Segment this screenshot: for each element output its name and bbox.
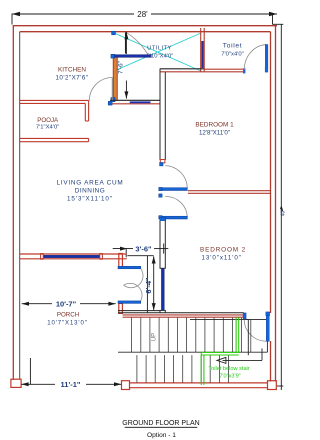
svg-text:11'-1": 11'-1" <box>61 380 81 389</box>
svg-text:Option - 1: Option - 1 <box>147 432 176 439</box>
svg-text:KITCHEN: KITCHEN <box>58 67 86 74</box>
svg-text:10'7"X13'0": 10'7"X13'0" <box>47 321 87 327</box>
svg-text:7'0"x3'9": 7'0"x3'9" <box>219 374 240 380</box>
svg-text:UP: UP <box>152 333 158 341</box>
svg-text:15'3"X11'10": 15'3"X11'10" <box>67 196 113 203</box>
svg-text:6'-4": 6'-4" <box>144 277 153 294</box>
svg-text:10'-7": 10'-7" <box>56 300 77 309</box>
svg-text:28': 28' <box>137 10 148 19</box>
svg-text:10'2"X7'6": 10'2"X7'6" <box>55 75 88 82</box>
svg-text:7'0"x4'0": 7'0"x4'0" <box>221 51 243 57</box>
svg-text:LIVING AREA CUM: LIVING AREA CUM <box>56 180 123 187</box>
svg-text:BEDROOM 1: BEDROOM 1 <box>195 122 234 129</box>
svg-text:7'1"X4'0": 7'1"X4'0" <box>36 125 59 131</box>
svg-text:7'-6": 7'-6" <box>118 60 125 74</box>
svg-text:GROUND FLOOR PLAN: GROUND FLOOR PLAN <box>122 420 199 427</box>
svg-text:Toilet below stair: Toilet below stair <box>208 366 249 372</box>
svg-text:6'10"X4'0": 6'10"X4'0" <box>147 53 174 59</box>
svg-text:40': 40' <box>281 210 287 217</box>
svg-text:DINNING: DINNING <box>75 188 105 195</box>
svg-text:13'0"x11'0": 13'0"x11'0" <box>201 254 242 261</box>
svg-text:BEDROOM 2: BEDROOM 2 <box>200 246 246 253</box>
svg-text:UTILITY: UTILITY <box>147 46 172 52</box>
svg-text:12'8"X11'0": 12'8"X11'0" <box>199 130 230 137</box>
svg-text:PORCH: PORCH <box>57 312 79 319</box>
svg-text:Toilet: Toilet <box>223 42 243 49</box>
svg-text:3'-6": 3'-6" <box>135 245 152 254</box>
svg-text:POOJA: POOJA <box>37 117 59 124</box>
